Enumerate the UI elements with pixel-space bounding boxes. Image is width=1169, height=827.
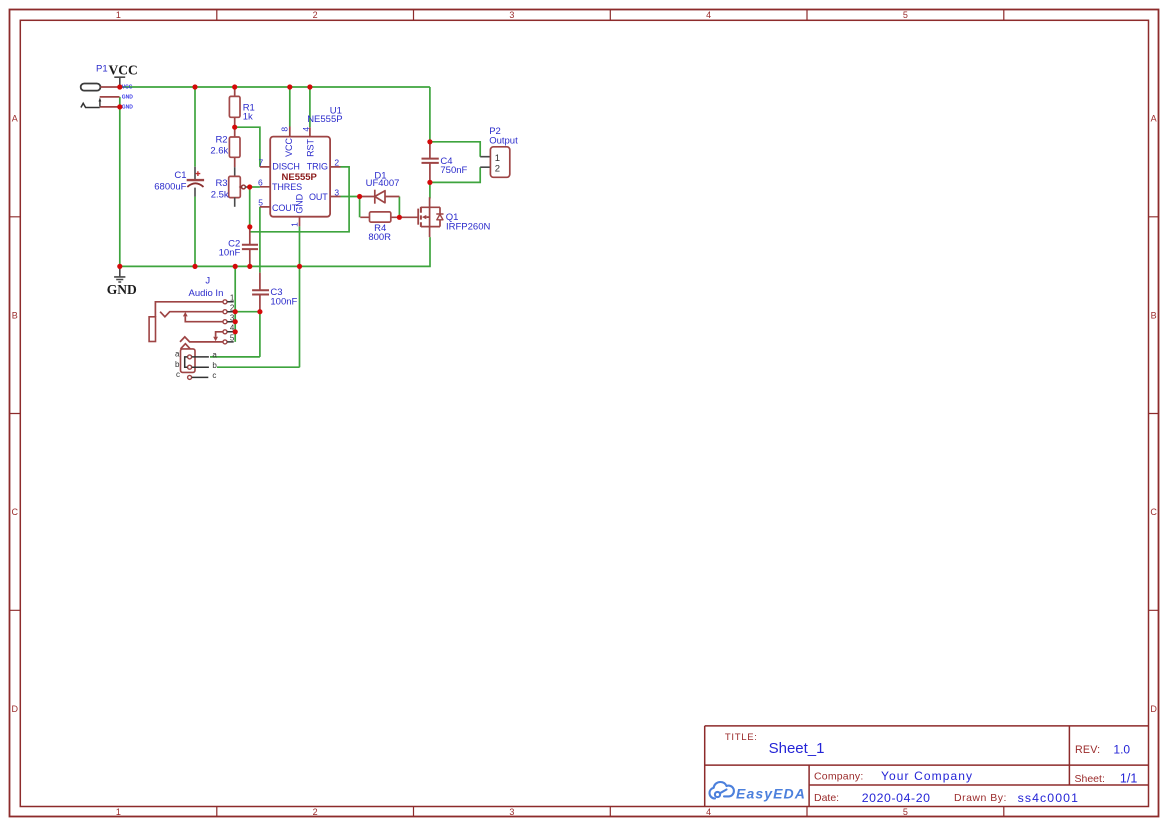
svg-text:RST: RST [306,139,316,157]
wire P1 GND to bottom rail [119,107,121,267]
svg-text:750nF: 750nF [440,165,467,176]
J switch box [181,349,196,373]
svg-text:2: 2 [313,10,318,20]
svg-text:1: 1 [230,294,235,303]
svg-text:800R: 800R [368,232,391,243]
connector P2 [480,126,518,177]
svg-text:5: 5 [230,334,235,343]
svg-text:8: 8 [280,127,290,132]
node R4 Q1 gate [397,215,402,220]
resistor R4 [360,212,399,243]
svg-text:A: A [12,114,18,124]
capacitor C3 [252,273,297,312]
wire U1 pin1 GND column [299,226,301,367]
connector J Audio In [149,275,235,380]
wire C1 bottom [194,197,196,267]
svg-text:1/1: 1/1 [1120,771,1137,785]
resistor R2 [210,127,240,176]
svg-text:b: b [212,361,217,370]
svg-text:2.5k: 2.5k [211,190,229,201]
node J pin4 [233,329,238,334]
svg-text:4: 4 [706,10,711,20]
svg-text:a: a [175,350,180,359]
svg-text:1: 1 [116,807,121,817]
title block [705,726,1149,807]
svg-text:NE555P: NE555P [282,172,318,183]
svg-text:A: A [1151,114,1157,124]
svg-text:R2: R2 [215,135,227,146]
svg-text:OUT: OUT [309,192,328,202]
svg-text:REV:: REV: [1075,744,1100,756]
resistor R1 [229,87,254,127]
power flag VCC [109,63,138,88]
wire U1 pin 8 VCC [289,87,291,127]
svg-text:C1: C1 [174,170,186,181]
svg-text:4: 4 [706,807,711,817]
svg-text:Audio In: Audio In [189,288,224,299]
wire D1 anode to R4 right [398,197,400,218]
J pin4 switch arm [216,332,223,337]
diode D1 [360,170,400,203]
svg-text:D: D [12,704,19,714]
IC U1 NE555P [258,105,343,227]
wire U1 pin 4 RST [309,87,311,127]
svg-text:a: a [212,351,217,360]
svg-text:NE555P: NE555P [307,114,342,125]
wire C3 bottom to a-node [259,312,261,357]
wire C4 to P2 pin 1 [430,142,480,157]
node P1 VCC [117,84,122,89]
svg-text:3: 3 [334,187,339,197]
svg-text:Output: Output [489,136,518,147]
J pin rings [223,300,227,304]
svg-text:DISCH: DISCH [272,162,300,172]
svg-text:2.6k: 2.6k [210,146,228,157]
node C1 VCC [192,84,197,89]
svg-text:b: b [175,360,180,369]
node GND rail U1 pin1 [297,264,302,269]
svg-text:C: C [12,507,19,517]
svg-text:TITLE:: TITLE: [725,732,758,743]
svg-text:2: 2 [313,807,318,817]
node R1 VCC [232,84,237,89]
svg-text:ss4c0001: ss4c0001 [1018,791,1079,805]
wire J.b to U1 GND column [217,366,300,368]
svg-text:10nF: 10nF [219,248,241,259]
svg-text:3: 3 [509,10,514,20]
svg-text:5: 5 [258,198,263,208]
node OUT D1 [357,194,362,199]
svg-text:3: 3 [509,807,514,817]
svg-text:7: 7 [259,158,264,168]
potentiometer R3 [211,176,248,206]
svg-text:C: C [1150,507,1157,517]
svg-text:GND: GND [107,282,137,297]
wire R1 to DISCH pin 7 [235,127,260,167]
wire jack ground column [234,266,236,342]
svg-text:4: 4 [301,127,311,132]
svg-text:1: 1 [116,10,121,20]
svg-text:1k: 1k [243,112,253,123]
svg-text:IRFP260N: IRFP260N [446,222,490,233]
node C4 bottom [427,180,432,185]
capacitor C2 [219,227,258,267]
wire P1 GND pin link [119,97,121,107]
node GND rail C1 [192,264,197,269]
svg-text:P1: P1 [96,64,108,75]
svg-text:Sheet_1: Sheet_1 [769,740,825,757]
wire GND bottom rail [120,237,430,266]
J pin3 switch arm [185,316,223,322]
capacitor C4 [422,142,468,183]
ground symbol GND [107,266,137,297]
node U1 pin4 VCC [307,84,312,89]
wire C1 top [194,87,196,167]
svg-text:6800uF: 6800uF [154,181,186,192]
svg-text:THRES: THRES [272,182,302,192]
node C4 top [427,139,432,144]
svg-text:B: B [1151,310,1157,320]
svg-text:1: 1 [290,222,300,227]
wire OUT node to R4 left [359,197,361,218]
wire THRES column down to C2 [249,187,251,227]
svg-text:Your Company: Your Company [881,769,973,783]
node U1 pin8 VCC [287,84,292,89]
J pin stubs [227,302,234,342]
svg-text:Company:: Company: [814,771,863,783]
svg-text:EasyEDA: EasyEDA [736,785,806,801]
svg-text:GND: GND [122,104,134,110]
wire COUT pin 5 down to C3 [259,207,261,273]
svg-text:6: 6 [258,177,263,187]
wire J.a to C3 node [210,356,260,358]
svg-text:100nF: 100nF [270,296,297,307]
svg-text:J: J [205,275,210,286]
junction dots [117,84,432,334]
node R1-R2 junction [232,125,237,130]
wire OUT pin 3 [341,196,360,198]
node GND rail C2 [247,264,252,269]
svg-text:5: 5 [903,807,908,817]
connector P1 [81,64,134,111]
capacitor C1 [154,167,204,197]
wire TRIG loop [250,167,349,232]
wire C4 bottom to Q1 drain [429,182,431,198]
svg-text:UF4007: UF4007 [366,178,400,189]
svg-text:VCC: VCC [284,138,294,157]
wire J.2 to C3 [235,311,260,313]
node THRES C2 [247,224,252,229]
svg-text:VCC: VCC [122,85,133,91]
node J pin2 [233,309,238,314]
node GND rail jack [233,264,238,269]
node J pin3 [233,319,238,324]
J ring contact artwork [180,337,223,342]
svg-text:c: c [212,371,216,380]
J switch contacts a b c [188,355,192,359]
MOSFET Q1 [399,197,490,237]
J sleeve artwork [155,302,223,317]
svg-text:VCC: VCC [109,63,138,78]
svg-text:1: 1 [495,153,500,164]
svg-text:Date:: Date: [814,792,839,804]
wire VCC top rail [120,86,430,88]
node C3 J2 [257,309,262,314]
svg-text:R3: R3 [215,178,227,189]
svg-text:D: D [1150,704,1157,714]
J tip contact artwork [160,312,223,317]
svg-text:TRIG: TRIG [307,162,328,172]
svg-text:2: 2 [495,164,500,175]
node GND rail P1 [117,264,122,269]
svg-text:c: c [176,370,180,379]
svg-text:Drawn By:: Drawn By: [954,792,1007,804]
svg-text:2020-04-20: 2020-04-20 [862,791,931,805]
svg-text:5: 5 [903,10,908,20]
svg-text:GND: GND [122,94,134,100]
svg-text:1.0: 1.0 [1113,742,1130,756]
wire C4 top column [429,87,431,142]
svg-text:Sheet:: Sheet: [1075,773,1105,785]
node P1 GND pin [117,104,122,109]
svg-text:2: 2 [334,158,339,168]
wire P2 pin 2 to C4 bottom [430,167,480,182]
svg-text:GND: GND [295,193,305,213]
node THRES wiper [247,184,252,189]
svg-text:B: B [12,310,18,320]
wire R3 wiper to THRES pin 6 [247,186,260,188]
